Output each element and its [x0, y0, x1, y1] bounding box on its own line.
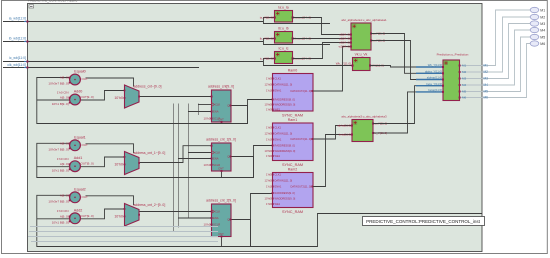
wire reg1 bottom port — [221, 171, 223, 178]
ram Ram2 nub RADDRESS[9..0] — [272, 192, 274, 194]
Prediction input highlight alphap[11:0] — [416, 79, 443, 81]
module box PREDICTIVE_CONTROL — [28, 4, 483, 252]
svg-text:A[9..0]: A[9..0] — [60, 96, 69, 100]
Prediction output wire M5 — [460, 91, 482, 93]
ram Ram1 nub ENA1 — [272, 139, 274, 141]
ram Ram2 nub WE1 — [272, 203, 274, 205]
svg-text:M1: M1 — [462, 64, 466, 68]
mux nubs row1 — [124, 156, 126, 158]
ram Ram0 — [273, 74, 314, 112]
block Ib plus icon — [276, 33, 279, 36]
svg-text:SYNC_RAM: SYNC_RAM — [282, 210, 303, 214]
register0 nubs — [211, 96, 213, 98]
svg-text:10'h0: 10'h0 — [114, 215, 123, 219]
wire Ib out to abc_alphabeta1 — [293, 38, 352, 40]
block Ia nubs — [274, 16, 276, 18]
Prediction output wire M6 — [460, 97, 482, 99]
ram Ram0 nub ENA1 — [272, 90, 274, 92]
svg-text:A[9..0]: A[9..0] — [60, 193, 69, 197]
svg-text:Ram2: Ram2 — [288, 168, 298, 172]
wire Add1 OUT to mux — [81, 157, 125, 167]
svg-text:M3: M3 — [462, 77, 466, 81]
svg-text:CLK1: CLK1 — [275, 77, 282, 81]
svg-text:A[9..0]: A[9..0] — [60, 214, 69, 218]
bottom dark loop wire — [37, 214, 483, 247]
mux address_cnt_2~ — [125, 204, 140, 227]
wire const to mux row2 — [124, 216, 125, 218]
svg-text:1'h0: 1'h0 — [266, 154, 272, 158]
svg-text:Vk:u_Vk: Vk:u_Vk — [355, 53, 368, 57]
svg-text:CLK: CLK — [215, 151, 220, 155]
svg-text:address_cnt_1[9..0]: address_cnt_1[9..0] — [206, 138, 236, 142]
abc_alphabeta1 input nub 2 — [350, 42, 352, 44]
svg-text:M5: M5 — [462, 90, 466, 94]
svg-text:ENA: ENA — [213, 110, 219, 114]
block Prediction:u_Prediction — [443, 60, 460, 101]
svg-text:SYNC_RAM: SYNC_RAM — [282, 163, 303, 167]
Prediction output nub M1 — [459, 65, 461, 67]
svg-text:10'h3e7 B[9..0]: 10'h3e7 B[9..0] — [48, 200, 68, 204]
svg-text:address_cnt_2[9..0]: address_cnt_2[9..0] — [206, 199, 236, 203]
svg-text:CLK1: CLK1 — [275, 173, 282, 177]
svg-text:address_cnt_2~[9..0]: address_cnt_2~[9..0] — [134, 203, 166, 207]
svg-text:M6: M6 — [484, 96, 489, 100]
input wire ic_wb[11:0] — [3, 61, 263, 63]
svg-text:Ram0: Ram0 — [288, 69, 298, 73]
svg-text:Add0: Add0 — [74, 90, 83, 94]
svg-text:address_cnt~[9..0]: address_cnt~[9..0] — [134, 85, 162, 89]
Prediction input highlight betap[11:0] — [416, 91, 443, 93]
Prediction output wire M2 — [460, 71, 482, 73]
adder Add1 — [70, 161, 81, 172]
svg-text:CNT: CNT — [218, 232, 224, 236]
svg-text:M5: M5 — [484, 90, 489, 94]
clk trunk vertical 2 — [178, 104, 180, 228]
Equal1 input nubs — [69, 143, 71, 145]
wire ic branch to Ic block — [264, 59, 275, 62]
svg-text:10'h1 B[9..0]: 10'h1 B[9..0] — [52, 169, 69, 173]
svg-text:WADDRESS[9..0]: WADDRESS[9..0] — [275, 103, 296, 107]
svg-text:beta_Y[11:0]: beta_Y[11:0] — [426, 82, 442, 86]
svg-text:RADDRESS[9..0]: RADDRESS[9..0] — [275, 98, 295, 102]
block Vk:u_Vk — [353, 58, 371, 71]
input wire ib_wb[11:0] highlight — [24, 41, 29, 43]
svg-text:M2: M2 — [462, 70, 466, 74]
svg-text:A[9..0]: A[9..0] — [60, 76, 69, 80]
svg-text:SCLR: SCLR — [213, 163, 220, 167]
wire M5 to output pin — [482, 37, 531, 92]
input wire clk_wb[11:0] highlight — [24, 67, 29, 69]
Prediction output nub M6 — [459, 97, 461, 99]
wire Add2 OUT to mux — [81, 209, 125, 219]
svg-text:OUT[9..0]: OUT[9..0] — [81, 214, 94, 218]
wire Ic out to abc_alphabeta1 — [293, 43, 352, 59]
svg-text:CNT: CNT — [218, 118, 224, 122]
wire feedback stub to Add0 A — [37, 99, 70, 101]
svg-text:Ic:u_Ic: Ic:u_Ic — [279, 47, 289, 51]
ram Ram1 output nub — [311, 138, 313, 140]
svg-text:OUT: OUT — [82, 195, 89, 199]
svg-text:10'h0: 10'h0 — [204, 117, 211, 121]
svg-text:M3: M3 — [484, 77, 489, 81]
Add2 input nubs — [69, 216, 71, 218]
wire M4 to output pin — [482, 30, 531, 85]
svg-text:1'h0 CIN: 1'h0 CIN — [57, 209, 69, 213]
svg-text:M6: M6 — [462, 96, 466, 100]
svg-text:10'h0: 10'h0 — [265, 197, 272, 201]
block Prediction plus icon — [444, 61, 447, 64]
wire Ram2 out to abc_alphabeta3 — [313, 135, 352, 187]
wire feedback loop row0 — [37, 78, 248, 124]
wire ic continuation to Vk — [264, 62, 353, 66]
Prediction input nub alpha_Y[11:0] — [442, 72, 444, 74]
svg-text:Ia:u_Ia: Ia:u_Ia — [278, 6, 288, 10]
svg-text:10'h3e7 B[9..0]: 10'h3e7 B[9..0] — [48, 82, 68, 86]
svg-text:Add1: Add1 — [74, 156, 83, 160]
ram Ram1 nub WE1 — [272, 155, 274, 157]
block abc_alphabeta3 — [352, 120, 373, 142]
ram Ram0 nub RADDRESS[9..0] — [272, 99, 274, 101]
ram Ram2 nub DATAIN1[11..0] — [272, 180, 274, 182]
wire M3 to output pin — [482, 24, 531, 79]
Prediction input highlight Wk_Y[11:0] — [416, 66, 443, 68]
wire mux2 out to reg D — [139, 211, 212, 213]
svg-text:RADDRESS[9..0]: RADDRESS[9..0] — [275, 191, 295, 195]
output pin M6 — [530, 41, 539, 46]
register address_cnt_2[9:0] — [212, 204, 232, 237]
output pin M4 — [530, 27, 539, 32]
wire clk stub reg0 — [198, 104, 212, 106]
Prediction output nub M2 — [459, 71, 461, 73]
svg-text:RADDRESS[9..0]: RADDRESS[9..0] — [275, 144, 295, 148]
instance name label box — [363, 217, 485, 226]
register1 nubs — [211, 145, 213, 147]
svg-text:M4: M4 — [484, 83, 489, 87]
wire reg1 Q to Ram RADDRESS — [254, 146, 273, 178]
block Ib:u_Ib — [275, 32, 293, 44]
svg-text:CLK1: CLK1 — [275, 126, 282, 130]
wire Ram0 out to abc_alphabeta1 — [313, 47, 351, 92]
block abc_alphabeta3 plus icon — [354, 121, 357, 124]
comparator Equal0 — [70, 74, 81, 85]
svg-text:DATAOUT2[11..0]: DATAOUT2[11..0] — [291, 137, 312, 141]
svg-text:ia_Y[11:0]: ia_Y[11:0] — [260, 16, 273, 20]
comparator Equal1 — [70, 140, 81, 151]
Equal0 input nubs — [69, 77, 71, 79]
svg-text:alpha[11:0]: alpha[11:0] — [337, 124, 351, 128]
input wire ib_wb[11:0] — [3, 41, 263, 43]
ram Ram1 nub DATAIN1[11..0] — [272, 133, 274, 135]
input wire clk_wb[11:0] — [3, 67, 199, 69]
ram Ram0 nub CLK1 — [272, 78, 274, 80]
svg-text:M1: M1 — [484, 64, 489, 68]
wire feedback stub to Add1 A — [37, 166, 70, 168]
svg-text:DATAIN1[11..0]: DATAIN1[11..0] — [275, 83, 293, 87]
bottom routing wire 2 — [29, 231, 218, 233]
register1 CLK triangle — [212, 151, 215, 155]
abc_alphabeta1 output nub a_Y[11:0] — [370, 33, 372, 35]
clk trunk vertical 3 — [188, 104, 190, 219]
svg-text:1'h0 CIN: 1'h0 CIN — [57, 90, 69, 94]
wire Ram1 out to abc_alphabeta3 — [313, 126, 352, 140]
input port nub ia_wb[11:0] — [26, 21, 28, 23]
block abc_alphabeta1 — [351, 23, 371, 50]
input port nub clk_wb[11:0] — [26, 67, 28, 69]
svg-text:10'h3e7 B[9..0]: 10'h3e7 B[9..0] — [48, 148, 68, 152]
svg-text:12'h0: 12'h0 — [265, 179, 272, 183]
svg-text:WE1: WE1 — [275, 202, 281, 206]
svg-text:address_cnt_1~[9..0]: address_cnt_1~[9..0] — [134, 151, 166, 155]
wire abc1 a_Y to Prediction — [371, 34, 443, 74]
wire Equal0 OUT to mux select — [86, 78, 134, 87]
register2 nubs — [211, 211, 213, 213]
ram Ram2 nub CLK1 — [272, 174, 274, 176]
wire mux0 out to reg D — [139, 96, 212, 98]
svg-text:ENA: ENA — [213, 157, 219, 161]
svg-text:PREDICTIVE_CONTROL:PREDICTIVE_: PREDICTIVE_CONTROL:PREDICTIVE_CONTROL_in… — [366, 219, 481, 224]
wire reg2 Q to Ram RADDRESS — [251, 194, 273, 247]
svg-text:abc_alphabeta3:u_abc_alphabeta: abc_alphabeta3:u_abc_alphabeta3 — [341, 115, 387, 119]
svg-text:10'h0: 10'h0 — [265, 149, 272, 153]
svg-text:M5: M5 — [540, 35, 545, 39]
svg-text:w2[24..0]: w2[24..0] — [339, 45, 351, 49]
wire feedback stub to Add2 A — [37, 218, 70, 220]
abc_alphabeta3 input nub alpha[11:0] — [351, 125, 353, 127]
register0 CLK triangle — [212, 103, 215, 107]
block Ic:u_Ic — [275, 52, 293, 64]
svg-text:CLK: CLK — [215, 210, 220, 214]
wire feedback loop row2 — [37, 195, 251, 246]
block Ib nubs — [274, 37, 276, 39]
svg-text:1'h0: 1'h0 — [266, 77, 272, 81]
register2 CLK triangle — [212, 210, 215, 214]
module collapse icon — [29, 5, 34, 8]
svg-text:OUT: OUT — [82, 77, 89, 81]
Prediction output nub M5 — [459, 91, 461, 93]
ram Ram2 nub WADDRESS[9..0] — [272, 198, 274, 200]
abc_alphabeta1 input nub 0 — [350, 34, 352, 36]
abc_alphabeta3 input nub beta[11:0] — [351, 134, 353, 136]
wire const to mux row1 — [124, 164, 125, 166]
svg-text:DATAOUT2[11..0]: DATAOUT2[11..0] — [291, 185, 312, 189]
wire Equal2 OUT to mux select — [86, 196, 134, 205]
ram Ram1 — [273, 123, 314, 161]
wire Ia out to abc_alphabeta1 — [293, 18, 352, 35]
Equal2 input nubs — [69, 195, 71, 197]
wire Add0 OUT to mux — [81, 91, 125, 101]
abc_alphabeta3 output nub b_Y[11:0] — [372, 132, 374, 134]
svg-text:abc_alphabeta1:u_abc_alphabeta: abc_alphabeta1:u_abc_alphabeta1 — [341, 18, 387, 22]
Prediction output nub M4 — [459, 84, 461, 86]
svg-text:Wk_Y[11:0]: Wk_Y[11:0] — [428, 63, 442, 67]
svg-text:M2: M2 — [540, 15, 545, 19]
svg-text:WE1: WE1 — [275, 154, 281, 158]
svg-text:ENA1: ENA1 — [275, 185, 282, 189]
adder Add0 — [70, 94, 81, 105]
wire abc3 a_Y to Prediction — [373, 86, 443, 124]
register address_cnt_1[9:0] — [212, 143, 232, 171]
svg-text:10'h1 B[9..0]: 10'h1 B[9..0] — [52, 102, 69, 106]
mux nubs row2 — [124, 208, 126, 210]
register address_cnt[9:0] — [212, 90, 232, 122]
Prediction input nub Wk_Y[11:0] — [442, 66, 444, 68]
ram Ram1 nub RADDRESS[9..0] — [272, 145, 274, 147]
Prediction output nub M3 — [459, 78, 461, 80]
mux address_cnt_1~ — [125, 152, 140, 175]
svg-text:Ib:u_Ib: Ib:u_Ib — [278, 27, 288, 31]
Add0 input nubs — [69, 97, 71, 99]
svg-text:1'h0: 1'h0 — [266, 108, 272, 112]
Add1 input nubs — [69, 163, 71, 165]
bottom routing wire 4 — [31, 241, 218, 243]
svg-text:ia_wb[11:0]: ia_wb[11:0] — [9, 17, 26, 21]
svg-text:M4: M4 — [462, 83, 466, 87]
input wire ia_wb[11:0] highlight — [24, 21, 29, 23]
svg-text:ENA1: ENA1 — [275, 138, 282, 142]
svg-text:Add2: Add2 — [74, 208, 83, 212]
block Ia:u_Ia — [275, 11, 293, 23]
svg-text:CLK: CLK — [215, 103, 220, 107]
wire clk stub reg1 — [188, 152, 212, 154]
svg-text:ic_wb[11:0]: ic_wb[11:0] — [9, 56, 26, 60]
svg-text:Prediction:u_Prediction: Prediction:u_Prediction — [437, 53, 469, 57]
ram Ram1 nub CLK1 — [272, 127, 274, 129]
ram Ram2 nub ENA1 — [272, 186, 274, 188]
svg-text:alpha_Y[11:0]: alpha_Y[11:0] — [425, 70, 442, 74]
Prediction output wire M1 — [460, 65, 482, 67]
svg-text:10'h1 B[9..0]: 10'h1 B[9..0] — [52, 221, 69, 225]
Prediction input nub betap[11:0] — [442, 91, 444, 93]
svg-text:1'h1: 1'h1 — [266, 138, 272, 142]
svg-text:beta[11:0]: beta[11:0] — [339, 133, 351, 137]
output pin M3 — [530, 21, 539, 26]
svg-text:Wk_Y[11:0]: Wk_Y[11:0] — [336, 62, 351, 66]
svg-text:PREDICTIVE_CONTROL:PREDIC: PREDICTIVE_CONTROL:PREDIC — [28, 0, 78, 3]
Prediction input highlight alpha_Y[11:0] — [416, 72, 443, 74]
svg-text:OUT[9..0]: OUT[9..0] — [81, 162, 94, 166]
svg-text:betap[11:0]: betap[11:0] — [428, 88, 442, 92]
svg-text:ENA: ENA — [213, 216, 219, 220]
svg-text:10'h0: 10'h0 — [204, 163, 211, 167]
abc_alphabeta1 input nub 1 — [350, 38, 352, 40]
input port nub ib_wb[11:0] — [26, 41, 28, 43]
svg-text:WE1: WE1 — [275, 108, 281, 112]
svg-text:Equal0: Equal0 — [74, 70, 85, 74]
ram Ram0 output nub — [311, 90, 313, 92]
output pin M2 — [530, 14, 539, 19]
svg-text:CNT: CNT — [218, 167, 224, 171]
abc_alphabeta1 output nub b_Y[11:0] — [370, 40, 372, 42]
abc_alphabeta3 output nub a_Y[11:0] — [372, 123, 374, 125]
svg-text:WADDRESS[9..0]: WADDRESS[9..0] — [275, 197, 296, 201]
wire reg0 Q to Ram RADDRESS — [248, 100, 273, 124]
svg-text:1'h0: 1'h0 — [266, 173, 272, 177]
svg-text:10'h0: 10'h0 — [265, 103, 272, 107]
wire ib continuation — [264, 42, 331, 45]
output pin M1 — [530, 7, 539, 12]
block abc_alphabeta1 plus icon — [353, 25, 356, 28]
svg-text:ib_wb[11:0]: ib_wb[11:0] — [9, 37, 26, 41]
svg-text:Ram1: Ram1 — [288, 118, 298, 122]
wire ia branch to Ia block — [264, 18, 275, 22]
svg-text:M6: M6 — [540, 42, 545, 46]
wire feedback loop row1 — [37, 143, 254, 177]
svg-text:12'h0: 12'h0 — [265, 132, 272, 136]
svg-text:10'h0: 10'h0 — [114, 96, 123, 100]
ram Ram1 nub WADDRESS[9..0] — [272, 150, 274, 152]
svg-text:M3: M3 — [540, 22, 545, 26]
wire clk stub reg2 — [188, 211, 212, 213]
wire M2 to output pin — [482, 17, 531, 72]
wire ia continuation — [264, 22, 331, 24]
svg-text:alphap[11:0]: alphap[11:0] — [427, 76, 442, 80]
block Ic plus icon — [276, 53, 279, 56]
svg-text:WADDRESS[9..0]: WADDRESS[9..0] — [275, 149, 296, 153]
ram Ram0 nub WADDRESS[9..0] — [272, 104, 274, 106]
Prediction output wire M3 — [460, 78, 482, 80]
svg-text:ic_Y[11:0]: ic_Y[11:0] — [260, 57, 273, 61]
input port nub ic_wb[11:0] — [26, 61, 28, 63]
wire M1 to output pin — [482, 10, 531, 66]
Prediction input nub alphap[11:0] — [442, 79, 444, 81]
ram Ram0 nub DATAIN1[11..0] — [272, 84, 274, 86]
wire ena stub reg0 — [188, 111, 212, 113]
mux address_cnt~ — [125, 85, 140, 108]
svg-text:OUT: OUT — [82, 143, 89, 147]
ram Ram2 — [273, 173, 314, 208]
svg-text:OUT[9..0]: OUT[9..0] — [81, 95, 94, 99]
input wire ic_wb[11:0] highlight — [24, 61, 29, 63]
svg-text:M1: M1 — [540, 8, 545, 12]
svg-text:1'h0: 1'h0 — [266, 126, 272, 130]
mux nubs row0 — [124, 90, 126, 92]
ram Ram0 nub WE1 — [272, 109, 274, 111]
svg-text:Equal2: Equal2 — [74, 187, 85, 191]
wire feedback stub vert row1 — [36, 166, 38, 168]
svg-text:DATAIN1[11..0]: DATAIN1[11..0] — [275, 132, 293, 136]
wire ena stub reg2 — [178, 217, 212, 219]
svg-text:A[9..0]: A[9..0] — [60, 141, 69, 145]
wire Vk out to Prediction — [370, 66, 443, 68]
svg-text:DATAIN1[11..0]: DATAIN1[11..0] — [275, 179, 293, 183]
comparator Equal2 — [70, 192, 81, 203]
block Vk nubs — [351, 64, 353, 66]
wire mux1 out to reg D — [139, 146, 212, 163]
svg-text:SYNC_RAM: SYNC_RAM — [282, 114, 303, 118]
wire reg2 bottom port — [221, 237, 223, 247]
svg-text:address_cnt[9..0]: address_cnt[9..0] — [208, 85, 234, 89]
bottom routing wire 3 — [28, 236, 218, 238]
svg-text:ENA1: ENA1 — [275, 89, 282, 93]
bottom routing wire 1 — [30, 226, 218, 228]
svg-text:M2: M2 — [484, 70, 489, 74]
wire ena stub reg1 — [178, 158, 212, 160]
clk trunk vertical 4 — [198, 104, 200, 116]
Prediction output wire M4 — [460, 84, 482, 86]
wire const to mux row0 — [124, 97, 125, 99]
input wire ia_wb[11:0] — [3, 21, 263, 23]
svg-text:10'h0: 10'h0 — [114, 163, 123, 167]
wire ib branch to Ib block — [264, 39, 275, 42]
Prediction input highlight beta_Y[11:0] — [416, 85, 443, 87]
svg-text:A[9..0]: A[9..0] — [60, 162, 69, 166]
clk trunk vertical 1 — [173, 104, 175, 232]
output pin M5 — [530, 34, 539, 39]
svg-text:1'h1: 1'h1 — [266, 89, 272, 93]
wire reg0 bottom port — [221, 122, 223, 124]
ram Ram2 output nub — [311, 186, 313, 188]
svg-text:DATAOUT2[11..0]: DATAOUT2[11..0] — [291, 89, 312, 93]
